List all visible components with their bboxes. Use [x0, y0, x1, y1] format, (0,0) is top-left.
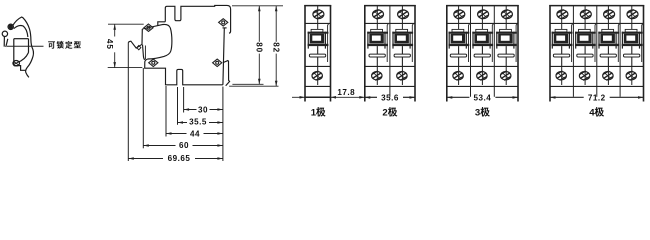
svg-text:35.6: 35.6: [381, 93, 399, 102]
svg-text:80: 80: [255, 42, 264, 53]
lever tip diamond: [137, 45, 141, 49]
face left edge: [13, 39, 15, 66]
bottom clip tab: [224, 61, 230, 86]
30 extension: [183, 87, 185, 113]
box 2P: [364, 5, 416, 7]
pole column 3P-3: [496, 6, 517, 85]
top ledge: [158, 22, 166, 26]
rivet top right: [219, 19, 228, 26]
pole column 3P-2: [472, 6, 493, 85]
pole column 1P: [308, 6, 329, 85]
face right edge: [28, 39, 30, 53]
69.65 extension: [127, 43, 129, 161]
box 1P: [304, 5, 331, 7]
svg-text:45: 45: [105, 39, 114, 50]
svg-text:35.5: 35.5: [189, 118, 207, 127]
80 dim line: [258, 6, 260, 42]
lower step outline: [14, 66, 26, 71]
pole column 2P-2: [392, 6, 413, 85]
svg-text:1极: 1极: [311, 106, 326, 118]
face left edge: [141, 29, 143, 44]
pole column 4P-4: [622, 6, 643, 85]
svg-text:17.8: 17.8: [337, 88, 355, 97]
toggle beak inner: [14, 25, 28, 37]
pole column 3P-1: [449, 6, 470, 85]
face plate: [142, 24, 172, 59]
44 extension: [165, 86, 167, 137]
lower screw: [13, 61, 20, 66]
toggle beak outer: [13, 17, 34, 77]
face top edge: [14, 38, 29, 40]
svg-text:82: 82: [272, 42, 281, 53]
dim 35.6: [365, 96, 415, 99]
60 extension: [142, 68, 144, 148]
dim 30: [184, 109, 197, 111]
box 3P: [446, 5, 519, 7]
box 4P: [549, 5, 644, 7]
dim 69.65: [128, 158, 163, 160]
pole column 4P-3: [598, 6, 619, 85]
svg-text:69.65: 69.65: [168, 154, 191, 163]
rivet bottom: [213, 59, 222, 66]
svg-text:可锁定型: 可锁定型: [48, 41, 82, 50]
dim 44: [166, 133, 187, 135]
back step tick: [223, 27, 227, 29]
body top outline with slot: [165, 5, 230, 33]
terminal screw bottom: [149, 59, 158, 66]
leader line: [7, 45, 44, 47]
dim 71.2: [550, 96, 644, 99]
right shared extension: [222, 87, 224, 162]
svg-text:44: 44: [190, 129, 200, 138]
toggle lever: [128, 41, 142, 48]
svg-text:71.2: 71.2: [588, 93, 606, 102]
face bottom arc: [18, 53, 29, 63]
rail recess line: [223, 28, 224, 85]
80 bottom extension: [232, 83, 263, 85]
lock shackle circle: [2, 31, 7, 36]
face inner rim line: [144, 46, 146, 60]
35.5 extension: [177, 87, 179, 125]
svg-text:53.4: 53.4: [474, 93, 492, 102]
svg-text:2极: 2极: [382, 106, 397, 118]
dim 60: [143, 145, 175, 147]
svg-text:3极: 3极: [475, 106, 490, 118]
face left edge lower: [143, 45, 145, 60]
dim 35.5: [178, 122, 188, 124]
lock ringed circle: [8, 24, 13, 29]
dim 53.4: [447, 96, 518, 99]
lock hasp: [3, 37, 5, 47]
svg-text:30: 30: [198, 105, 208, 114]
pole column 4P-1: [552, 6, 573, 85]
dim 17.8: [292, 96, 365, 99]
terminal screw top: [144, 24, 153, 31]
82 dim line: [275, 6, 277, 42]
front lower outline: [145, 59, 223, 85]
pole column 2P-1: [367, 6, 388, 85]
82 bottom extension: [229, 85, 278, 87]
top extension line: [232, 5, 283, 7]
svg-text:4极: 4极: [589, 106, 604, 118]
pole column 4P-2: [575, 6, 596, 85]
svg-text:60: 60: [179, 141, 189, 150]
